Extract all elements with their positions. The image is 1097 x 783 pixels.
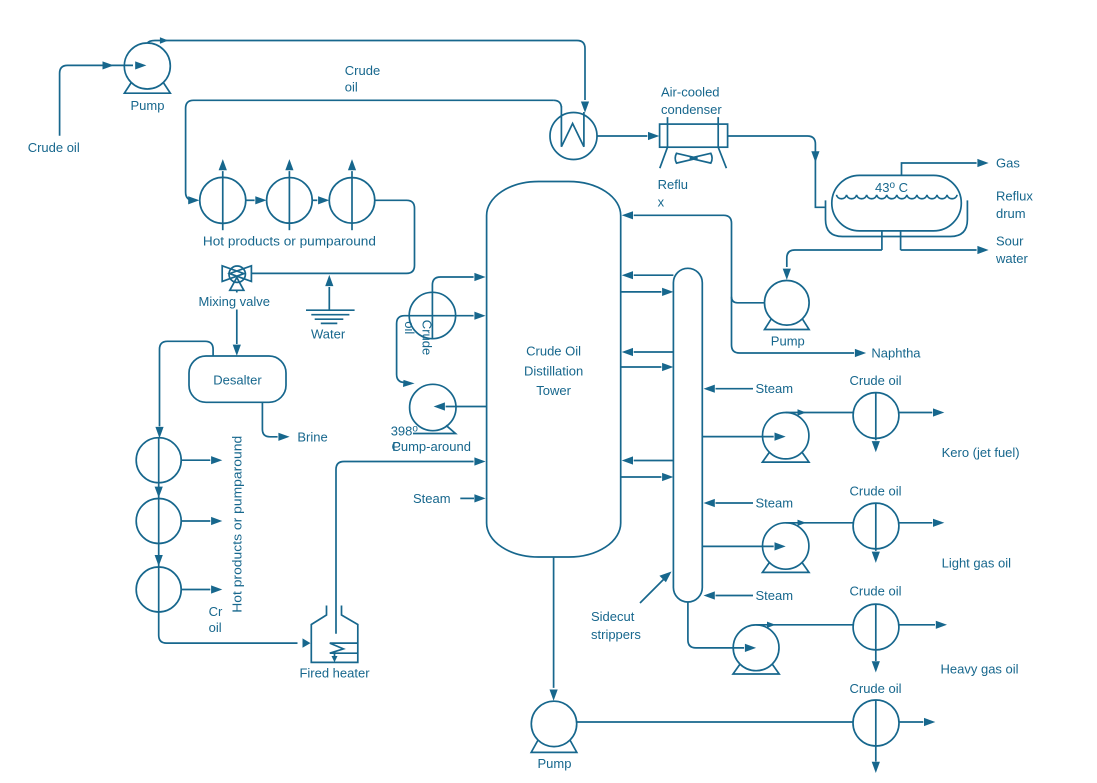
- wire stripper to tower (top): [622, 271, 674, 279]
- svg-text:oil: oil: [402, 321, 417, 334]
- svg-text:Gas: Gas: [996, 156, 1020, 171]
- heat exchanger HX9 (HGO / crude oil): [853, 604, 899, 672]
- svg-text:Water: Water: [311, 327, 346, 342]
- svg-text:Steam: Steam: [413, 491, 451, 506]
- wire stripper to tower (low): [622, 456, 674, 464]
- svg-text:Distillation: Distillation: [524, 363, 583, 378]
- wire HX3 top to tower: [432, 273, 485, 292]
- wire gas outlet: [902, 159, 989, 176]
- wire tower bottom to pump P7: [550, 557, 558, 701]
- svg-text:oil: oil: [345, 80, 358, 95]
- wire sour water outlet: [901, 246, 989, 254]
- svg-text:Crude oil: Crude oil: [849, 584, 901, 599]
- wire kero product out: [899, 408, 944, 416]
- svg-text:Pump: Pump: [538, 756, 572, 771]
- wire drum to pump P2: [783, 250, 882, 280]
- svg-text:Fired heater: Fired heater: [299, 666, 370, 681]
- svg-text:Kero (jet fuel): Kero (jet fuel): [942, 445, 1020, 460]
- sidecut stripper column: [673, 268, 702, 602]
- wire brine outlet: [262, 402, 289, 441]
- wire pump-around through HX3 into tower: [397, 312, 486, 387]
- wire into HX A: [188, 196, 199, 204]
- air-cooled condenser ACC: [660, 117, 728, 168]
- wire tower to stripper (mid): [621, 363, 674, 371]
- svg-text:Naphtha: Naphtha: [871, 346, 921, 361]
- wire LGO product out: [899, 519, 944, 527]
- wire HGO product out: [899, 621, 947, 629]
- wire exchanger column to fired heater: [159, 612, 311, 648]
- svg-text:Crude oil: Crude oil: [849, 484, 901, 499]
- svg-text:Pump-around: Pump-around: [392, 439, 471, 454]
- wire exchanger column outputs: [181, 456, 222, 593]
- pump P5 (light gas oil): [762, 523, 809, 573]
- svg-text:strippers: strippers: [591, 627, 641, 642]
- wire stripper to LGO pump P5: [702, 542, 785, 550]
- svg-text:Hot products or pumparound: Hot products or pumparound: [203, 234, 376, 249]
- svg-text:Light gas oil: Light gas oil: [942, 555, 1011, 570]
- callout arrow to stripper: [640, 572, 672, 604]
- svg-text:Crude Oil: Crude Oil: [526, 344, 581, 359]
- svg-text:Pump: Pump: [131, 98, 165, 113]
- svg-text:Pump: Pump: [771, 334, 805, 349]
- condenser HX1 (shell with W coil): [550, 100, 597, 159]
- wire condenser to air-cooled condenser: [597, 132, 659, 140]
- svg-text:Air-cooled: Air-cooled: [661, 85, 720, 100]
- heat exchanger HX7 (kero / crude oil): [853, 393, 899, 453]
- svg-text:Sidecut: Sidecut: [591, 609, 635, 624]
- pump P2 (reflux pump): [765, 281, 810, 330]
- wire fired heater to tower: [336, 457, 486, 633]
- pump P7 (bottoms): [531, 701, 577, 752]
- svg-text:Crude: Crude: [345, 63, 380, 78]
- wire valve to desalter: [233, 290, 241, 356]
- wire P7 to HX10: [577, 721, 853, 723]
- wire steam into tower: [460, 494, 485, 502]
- pump P3 (398 C pump-around pump): [410, 384, 456, 433]
- svg-text:Tower: Tower: [536, 383, 571, 398]
- wire tower to stripper (low): [621, 473, 674, 481]
- wire stripper bottom to HGO pump P6: [688, 602, 756, 652]
- wire P4 to HX7: [786, 409, 853, 415]
- wire bottoms product out: [899, 718, 935, 726]
- wire steam 1 into stripper: [704, 385, 754, 393]
- wire reflux return to tower: [622, 211, 866, 357]
- left exchanger column HX D/E/F: [136, 438, 181, 612]
- svg-text:Steam: Steam: [756, 588, 794, 603]
- wire P6 to HX9: [756, 622, 853, 628]
- heat exchanger HX10 (bottoms / crude oil): [853, 700, 899, 773]
- svg-text:Steam: Steam: [756, 381, 794, 396]
- heat exchanger HX8 (LGO / crude oil): [853, 503, 899, 563]
- wire HX C to mixing valve: [251, 200, 414, 273]
- svg-text:Brine: Brine: [297, 429, 327, 444]
- mixing valve MV: [222, 266, 251, 291]
- wire tower to stripper (top): [621, 288, 674, 296]
- wire water branch: [325, 275, 333, 310]
- svg-text:Crude oil: Crude oil: [849, 681, 901, 696]
- svg-text:oil: oil: [209, 620, 222, 635]
- svg-text:drum: drum: [996, 206, 1026, 221]
- svg-text:x: x: [658, 194, 665, 209]
- svg-text:condenser: condenser: [661, 102, 722, 117]
- wire ACC outlet to reflux drum: [728, 136, 825, 207]
- svg-text:Hot products or pumparound: Hot products or pumparound: [230, 436, 245, 613]
- svg-text:Heavy gas oil: Heavy gas oil: [941, 662, 1019, 677]
- pump P1: [124, 43, 170, 93]
- svg-text:Sour: Sour: [996, 234, 1024, 249]
- fired heater FH: [311, 606, 358, 663]
- pump P6 (heavy gas oil): [733, 625, 779, 674]
- svg-text:Desalter: Desalter: [213, 373, 262, 388]
- wire stripper to tower (mid): [622, 348, 674, 356]
- wire desalter to exchanger column: [155, 341, 213, 438]
- svg-text:Crude oil: Crude oil: [849, 373, 901, 388]
- svg-text:Crude oil: Crude oil: [28, 140, 80, 155]
- wire HX B to HX C: [312, 196, 329, 204]
- svg-text:Crude: Crude: [419, 320, 434, 355]
- svg-text:Reflu: Reflu: [658, 177, 688, 192]
- svg-text:Cr: Cr: [209, 604, 223, 619]
- tower (Crude Oil Distillation Tower): [487, 182, 621, 558]
- heat exchanger HX3 (pump-around / crude oil): [409, 292, 455, 338]
- reflux drum: [826, 175, 968, 250]
- heat exchanger row HX A/B/C: [200, 159, 375, 230]
- wire P5 to HX8: [786, 520, 853, 526]
- wire crude oil feed to pump P1: [60, 61, 147, 135]
- wire P1 outlet to condenser (top line): [147, 37, 589, 113]
- wire condenser crude-out to exchanger row: [186, 100, 554, 200]
- wire stripper to kero pump P4: [702, 433, 785, 441]
- svg-text:Reflux: Reflux: [996, 188, 1033, 203]
- wire tower to pump P3: [434, 402, 487, 410]
- wire steam 3 into stripper: [704, 591, 754, 599]
- wire steam 2 into stripper: [704, 499, 754, 507]
- wire P2 outlet junction: [732, 297, 765, 303]
- svg-text:Mixing valve: Mixing valve: [199, 294, 271, 309]
- water symbol: [306, 310, 355, 323]
- wire HX A to HX B: [246, 196, 267, 204]
- pump P4 (kero): [762, 413, 809, 463]
- desalter: [189, 356, 286, 402]
- svg-text:Steam: Steam: [756, 496, 794, 511]
- svg-text:water: water: [995, 251, 1028, 266]
